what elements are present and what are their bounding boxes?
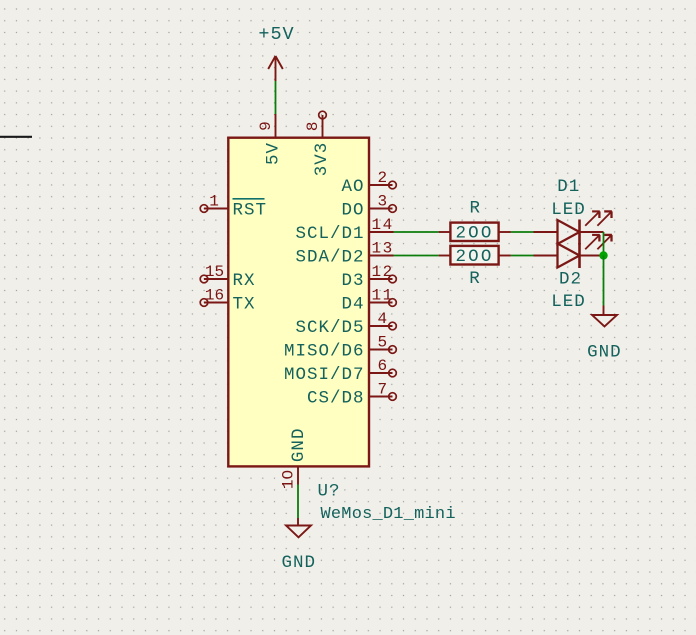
svg-text:2: 2 xyxy=(377,169,387,187)
svg-text:7: 7 xyxy=(377,381,387,399)
wire fragment at left sheet edge xyxy=(0,136,32,138)
pin 2 (A0) unconnected xyxy=(369,181,396,189)
pin 7 (CS/D8) unconnected xyxy=(369,393,396,401)
svg-text:GND: GND xyxy=(289,428,309,463)
wire pin 14 to R1 xyxy=(394,231,439,233)
pin 4 (SCK/D5) unconnected xyxy=(369,322,396,330)
svg-text:R: R xyxy=(469,269,480,289)
svg-text:TX: TX xyxy=(233,295,256,315)
svg-text:12: 12 xyxy=(372,263,394,281)
svg-text:GND: GND xyxy=(281,553,316,573)
svg-text:RST: RST xyxy=(233,201,268,221)
resistor R1 (200) xyxy=(439,223,511,241)
LED D1 xyxy=(534,211,612,244)
pin 13 (SDA/D2) xyxy=(369,255,394,257)
pin 8 (3V3) unconnected xyxy=(319,111,327,138)
ground symbol bottom xyxy=(286,518,311,537)
svg-text:15: 15 xyxy=(205,263,224,281)
pin 5 (MISO/D6) unconnected xyxy=(369,346,396,354)
svg-text:SCK/D5: SCK/D5 xyxy=(295,318,364,338)
svg-text:13: 13 xyxy=(372,240,394,258)
pin 1 (RST) unconnected xyxy=(200,205,228,213)
svg-text:D4: D4 xyxy=(341,295,364,315)
svg-text:6: 6 xyxy=(377,357,387,375)
svg-text:3V3: 3V3 xyxy=(312,142,332,177)
svg-text:3: 3 xyxy=(377,193,387,211)
svg-text:SDA/D2: SDA/D2 xyxy=(295,248,364,268)
pin 12 (D3) unconnected xyxy=(369,275,396,283)
wire pin 10 to GND xyxy=(297,485,299,519)
svg-text:5: 5 xyxy=(377,334,387,352)
ground symbol right xyxy=(592,306,617,327)
junction dot xyxy=(599,251,607,259)
svg-text:2OO: 2OO xyxy=(455,247,493,267)
svg-text:5V: 5V xyxy=(264,142,284,165)
pin 3 (D0) unconnected xyxy=(369,205,396,213)
pin 10 (GND) xyxy=(297,466,299,485)
svg-text:1: 1 xyxy=(209,193,219,211)
pin 6 (MOSI/D7) unconnected xyxy=(369,369,396,377)
svg-text:LED: LED xyxy=(551,292,586,312)
power symbol +5V xyxy=(268,56,283,81)
wire R1 to LED D1 xyxy=(511,231,534,233)
wire R2 to LED D2 xyxy=(511,255,534,257)
svg-text:16: 16 xyxy=(205,287,224,305)
svg-text:LED: LED xyxy=(551,200,586,220)
IC U? WeMos_D1_mini body xyxy=(228,138,369,467)
svg-text:MOSI/D7: MOSI/D7 xyxy=(284,365,365,385)
svg-text:11: 11 xyxy=(372,287,394,305)
svg-text:D3: D3 xyxy=(341,271,364,291)
wire pin 13 to R2 xyxy=(394,255,439,257)
svg-text:14: 14 xyxy=(372,216,394,234)
svg-text:9: 9 xyxy=(257,121,275,131)
svg-text:D2: D2 xyxy=(559,269,582,289)
resistor R2 (200) xyxy=(439,246,511,265)
LED D2 xyxy=(534,235,612,268)
svg-text:R: R xyxy=(470,199,481,219)
svg-text:2OO: 2OO xyxy=(455,223,493,243)
pin 16 (TX) unconnected xyxy=(200,299,228,307)
pin 15 (RX) unconnected xyxy=(200,275,228,283)
wire D1 cathode down to junction xyxy=(603,232,605,256)
svg-text:4: 4 xyxy=(377,310,387,328)
pin 9 (5V) xyxy=(275,114,277,138)
svg-text:RX: RX xyxy=(233,271,256,291)
pin 14 (SCL/D1) xyxy=(369,231,394,233)
svg-text:MISO/D6: MISO/D6 xyxy=(284,342,365,362)
svg-text:+5V: +5V xyxy=(258,24,294,45)
svg-text:DO: DO xyxy=(341,201,364,221)
svg-text:SCL/D1: SCL/D1 xyxy=(295,224,364,244)
svg-text:D1: D1 xyxy=(557,177,580,197)
svg-text:U?: U? xyxy=(318,482,341,502)
wire +5V to pin 9 xyxy=(275,81,277,114)
svg-text:AO: AO xyxy=(341,177,364,197)
svg-text:CS/D8: CS/D8 xyxy=(307,389,365,409)
svg-text:GND: GND xyxy=(587,343,622,363)
wire junction to GND xyxy=(603,256,605,306)
svg-text:1O: 1O xyxy=(280,470,298,489)
pin 11 (D4) unconnected xyxy=(369,299,396,307)
svg-text:WeMos_D1_mini: WeMos_D1_mini xyxy=(321,505,456,524)
svg-text:8: 8 xyxy=(304,121,322,131)
